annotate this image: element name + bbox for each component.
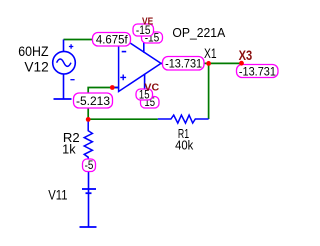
- svg-text:X3: X3: [239, 48, 253, 63]
- svg-text:X1: X1: [204, 46, 217, 61]
- svg-text:VE: VE: [142, 15, 153, 27]
- svg-text:VC: VC: [144, 82, 159, 94]
- svg-text:40k: 40k: [175, 139, 194, 153]
- svg-text:-5: -5: [85, 160, 94, 172]
- svg-text:V12: V12: [24, 58, 49, 74]
- svg-text:-5.213: -5.213: [76, 94, 110, 108]
- svg-text:4.675f: 4.675f: [96, 33, 128, 47]
- svg-text:1k: 1k: [62, 142, 76, 156]
- svg-text:-13.731: -13.731: [165, 57, 202, 71]
- svg-text:-13.731: -13.731: [239, 64, 276, 78]
- svg-text:OP_221A: OP_221A: [172, 25, 225, 40]
- svg-text:V11: V11: [48, 186, 67, 202]
- svg-text:60HZ: 60HZ: [18, 43, 49, 59]
